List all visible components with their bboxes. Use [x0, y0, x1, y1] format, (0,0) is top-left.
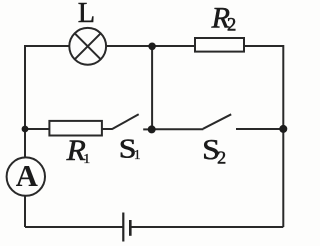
svg-text:2: 2 [217, 147, 226, 167]
svg-text:A: A [16, 159, 38, 193]
svg-text:1: 1 [134, 147, 141, 162]
svg-text:L: L [78, 0, 95, 29]
svg-text:1: 1 [83, 152, 90, 167]
svg-text:2: 2 [227, 16, 236, 36]
